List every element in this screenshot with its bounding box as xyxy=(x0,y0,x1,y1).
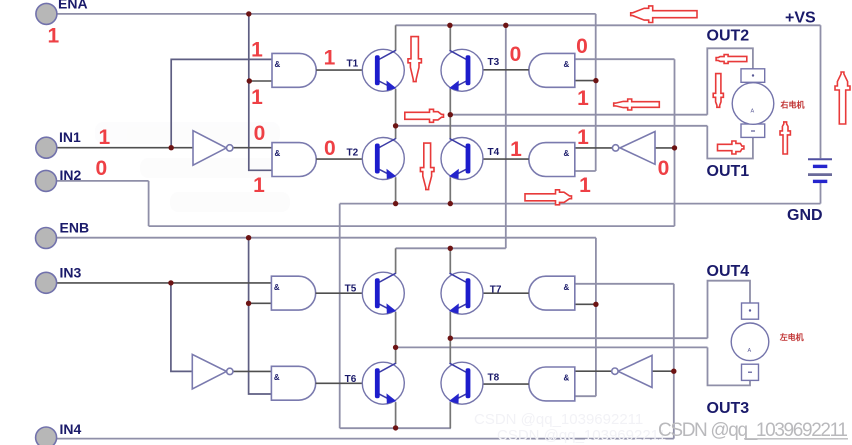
wire GND rail xyxy=(340,203,821,205)
wire inverter U9 input xyxy=(652,370,674,372)
wire ENB left drop xyxy=(249,238,272,394)
wire IN1 from pin to inverter xyxy=(57,147,193,149)
node GND T2 xyxy=(393,201,398,206)
faint background smudge top-left (decorative ignore) xyxy=(95,122,290,212)
svg-text:0: 0 xyxy=(510,43,522,66)
svg-text:1: 1 xyxy=(579,174,591,197)
wire gate U8 output to T7 base xyxy=(473,292,529,294)
wire T7 emitter to OUT4 xyxy=(449,312,451,338)
motor M2 left motor xyxy=(731,303,769,380)
and-gate U2 T3 mirrored xyxy=(529,53,575,87)
svg-text:T3: T3 xyxy=(488,57,500,68)
node OUT2 junction xyxy=(448,112,453,117)
current arrow up right of motor M1 xyxy=(780,122,790,154)
wire OUT4 rail from T7 T8 midpoint xyxy=(450,337,707,339)
wire ENA right drop to right AND gates xyxy=(595,14,597,171)
wire gate U5b output to T6 base xyxy=(316,382,375,384)
svg-text:0: 0 xyxy=(95,157,107,180)
svg-text:CSDN @qq_1039692211: CSDN @qq_1039692211 xyxy=(474,411,643,428)
svg-text:1: 1 xyxy=(251,39,263,62)
current arrow up beside battery xyxy=(835,72,850,124)
pin ENB xyxy=(36,228,57,249)
current arrow right below gate U4 xyxy=(525,190,572,205)
current arrow down left of motor M1 xyxy=(713,74,723,108)
pin IN2 xyxy=(36,170,57,191)
wire ENB right drop xyxy=(595,238,597,397)
svg-text:T8: T8 xyxy=(488,373,500,384)
battery B1 xyxy=(808,159,832,181)
wire T4 collector xyxy=(449,115,451,139)
svg-text:ENA: ENA xyxy=(58,0,88,12)
wire T3 collector column xyxy=(449,25,451,51)
current arrow left at top near +VS xyxy=(631,6,697,23)
wire gate U10 output to T8 base xyxy=(473,383,529,385)
svg-text:T5: T5 xyxy=(345,284,357,295)
current arrow left above inverter U6 xyxy=(614,99,660,110)
wire OUT2 rail from T3 T4 midpoint xyxy=(450,114,707,116)
wire IN4 from pin xyxy=(57,438,674,440)
svg-text:1: 1 xyxy=(577,126,589,149)
svg-text:CSDN @qq_1039692211: CSDN @qq_1039692211 xyxy=(497,427,666,444)
wire IN4 to gate U8 input xyxy=(575,283,674,285)
current arrow right between bridge rails xyxy=(405,109,444,122)
wire gate U4 output to T4 base xyxy=(473,158,529,160)
svg-text:&: & xyxy=(564,60,570,69)
svg-text:0: 0 xyxy=(324,137,336,160)
svg-text:1: 1 xyxy=(253,174,265,197)
wire +VS middle drop to lower bridge xyxy=(505,25,507,248)
wire IN2 right riser xyxy=(674,59,676,226)
node lower +VS T7 column xyxy=(448,246,453,251)
transistor T8 mirrored xyxy=(441,362,483,404)
svg-text:0: 0 xyxy=(254,122,266,145)
transistor T2 xyxy=(362,138,404,180)
and-gate U10 T8 mirrored xyxy=(529,367,575,401)
node OUT4 junction xyxy=(448,336,453,341)
wire IN2 long horizontal run xyxy=(149,225,675,227)
svg-text:1: 1 xyxy=(251,86,263,109)
wire gate U2 output to T3 base xyxy=(473,69,529,71)
wire gate U5 output to T5 base xyxy=(316,292,375,294)
transistor T6 xyxy=(362,362,404,404)
svg-text:A: A xyxy=(751,109,755,115)
svg-text:0: 0 xyxy=(576,35,588,58)
wire gate U2 upper input stub xyxy=(575,80,596,82)
wire lower GND rail xyxy=(340,427,451,429)
wire T6 emitter to lower GND xyxy=(395,402,397,428)
inverter U9 lower right facing left xyxy=(612,355,652,387)
node lower GND T6 xyxy=(393,425,398,430)
svg-text:IN3: IN3 xyxy=(60,265,82,281)
wire T8 collector xyxy=(449,338,451,364)
wire +VS drop to battery xyxy=(820,25,822,158)
wire gate U8 input stub xyxy=(575,303,596,305)
inverter U6 right facing left xyxy=(612,132,655,165)
svg-text:IN4: IN4 xyxy=(60,421,82,437)
svg-text:1: 1 xyxy=(99,126,111,149)
svg-text:GND: GND xyxy=(787,207,823,224)
wire gate U4 input from inverter U6 xyxy=(575,147,613,149)
node IN3 branch xyxy=(168,280,173,285)
current arrow left inside OUT2 branch xyxy=(716,55,747,64)
and-gate U5 T5 xyxy=(271,276,315,310)
wire T8 emitter to lower GND xyxy=(449,402,451,428)
svg-text:1: 1 xyxy=(510,138,522,161)
wire IN2 to gate U2 input xyxy=(575,58,675,60)
pin ENA xyxy=(36,3,57,24)
wire motor M2 OUT3 branch xyxy=(708,347,751,385)
watermark underline xyxy=(744,438,848,440)
wire T5 collector column xyxy=(395,248,397,273)
svg-text:1: 1 xyxy=(48,25,60,48)
wire IN3 drop to inverter U7 xyxy=(171,283,192,372)
svg-text:T4: T4 xyxy=(488,147,500,158)
wire battery negative to GND rail xyxy=(820,183,822,204)
svg-text:&: & xyxy=(564,283,570,292)
transistor T4 mirrored xyxy=(441,138,483,180)
svg-text:IN2: IN2 xyxy=(60,167,82,183)
svg-text:T7: T7 xyxy=(490,285,502,296)
svg-text:T2: T2 xyxy=(347,147,359,158)
current arrow down between T2 and T4 xyxy=(420,143,434,190)
node ENA branch xyxy=(246,11,251,16)
and-gate U1b T2 xyxy=(272,143,316,177)
node +VS middle drop xyxy=(503,23,508,28)
node IN1 branch xyxy=(169,145,174,150)
node OUT1 junction xyxy=(393,123,398,128)
svg-text:1: 1 xyxy=(324,47,336,70)
node OUT3 junction xyxy=(393,345,398,350)
wire inverter U6 input xyxy=(655,147,675,149)
wire IN2 drop xyxy=(148,181,150,226)
inverter U7 IN3 xyxy=(192,354,233,389)
svg-text:&: & xyxy=(564,149,570,158)
svg-text:OUT4: OUT4 xyxy=(707,263,750,280)
wire +VS rail xyxy=(396,24,821,26)
svg-text:&: & xyxy=(274,283,280,292)
node +VS T3 column xyxy=(447,23,452,28)
wire T4 emitter to GND xyxy=(449,177,451,203)
svg-text:&: & xyxy=(564,374,570,383)
node gate U2 enable input xyxy=(593,78,598,83)
wire gate U10 enable input stub xyxy=(575,395,596,397)
and-gate U1 xyxy=(272,53,316,87)
wire IN1 riser to gate U1 xyxy=(171,59,272,147)
svg-text:&: & xyxy=(275,149,281,158)
wire IN4 right riser xyxy=(673,284,675,439)
svg-text:左电机: 左电机 xyxy=(779,332,804,342)
and-gate U5b T6 xyxy=(271,366,315,400)
wire IN2 from pin xyxy=(57,180,149,182)
wire gate U5 lower input stub xyxy=(249,302,272,304)
wire gate U10 input from inverter U9 xyxy=(575,370,612,372)
svg-text:A: A xyxy=(748,348,752,354)
wire ENA horizontal rail xyxy=(57,13,596,15)
svg-text:ENB: ENB xyxy=(60,220,90,236)
wire motor M2 OUT4 branch xyxy=(708,281,751,339)
wire T2 emitter to GND xyxy=(395,177,397,203)
node GND T4 xyxy=(448,201,453,206)
pin IN4 xyxy=(36,427,57,445)
svg-text:&: & xyxy=(275,60,281,69)
node gate U5 enable input xyxy=(246,301,251,306)
node IN4 inverter branch xyxy=(671,369,676,374)
current arrow right inside OUT1 branch xyxy=(718,141,744,154)
svg-text:OUT3: OUT3 xyxy=(707,400,750,417)
svg-text:0: 0 xyxy=(658,157,670,180)
svg-text:CSDN @qq_1039692211: CSDN @qq_1039692211 xyxy=(658,420,848,441)
wire OUT1 rail from T1 T2 midpoint xyxy=(396,125,708,127)
and-gate U8 T7 mirrored xyxy=(529,276,575,310)
and-gate U4 T4 mirrored xyxy=(529,143,575,177)
svg-text:1: 1 xyxy=(577,87,589,110)
inverter U3 IN1 xyxy=(193,131,233,166)
wire motor M1 OUT2 branch xyxy=(707,48,753,114)
transistor T5 xyxy=(362,272,404,314)
transistor T1 xyxy=(362,49,404,91)
wire T1 emitter to OUT1 xyxy=(395,89,397,126)
svg-text:IN1: IN1 xyxy=(59,129,81,145)
motor M1 right motor xyxy=(732,69,774,138)
wire T7 collector column xyxy=(449,248,451,273)
wire gate U4 enable input stub xyxy=(575,170,596,172)
wire OUT3 rail from T5 T6 midpoint xyxy=(396,346,708,348)
wire T5 emitter to OUT3 xyxy=(395,312,397,348)
wire motor M1 OUT1 branch xyxy=(707,126,753,159)
current arrow down beside T1 xyxy=(408,37,421,82)
svg-text:&: & xyxy=(274,373,280,382)
svg-text:+VS: +VS xyxy=(785,10,816,27)
svg-text:右电机: 右电机 xyxy=(780,100,805,110)
wire gate U1 output to T1 base xyxy=(316,69,375,71)
wire gate U1b output to T2 base xyxy=(316,158,375,160)
wire lower bridge +VS rail xyxy=(396,247,506,249)
wire IN3 from pin to gate U5 xyxy=(57,282,271,284)
node IN2 inverter branch xyxy=(672,145,677,150)
wire T2 collector xyxy=(395,126,397,139)
node ENB branch xyxy=(246,235,251,240)
wire T3 emitter to OUT2 xyxy=(449,89,451,115)
wire gate U1 lower input stub xyxy=(249,80,272,82)
pin IN3 xyxy=(36,272,57,293)
svg-text:OUT1: OUT1 xyxy=(707,163,750,180)
pin IN1 xyxy=(36,137,57,158)
wire ENA left drop to left AND gates xyxy=(249,14,272,170)
wire T6 collector xyxy=(395,347,397,364)
node gate U8 enable input xyxy=(593,302,598,307)
wire GND left drop to lower bridge xyxy=(339,204,341,429)
svg-text:T6: T6 xyxy=(345,374,357,385)
wire ENB horizontal rail xyxy=(57,237,596,239)
wire T1 collector column xyxy=(395,25,397,51)
wire inverter U7 output xyxy=(233,370,272,372)
transistor T7 mirrored xyxy=(441,272,483,314)
svg-text:T1: T1 xyxy=(347,58,359,69)
wire inverter U3 output xyxy=(233,147,272,149)
node gate U1 enable input xyxy=(247,78,252,83)
transistor T3 mirrored xyxy=(441,49,483,91)
svg-text:OUT2: OUT2 xyxy=(707,28,750,45)
